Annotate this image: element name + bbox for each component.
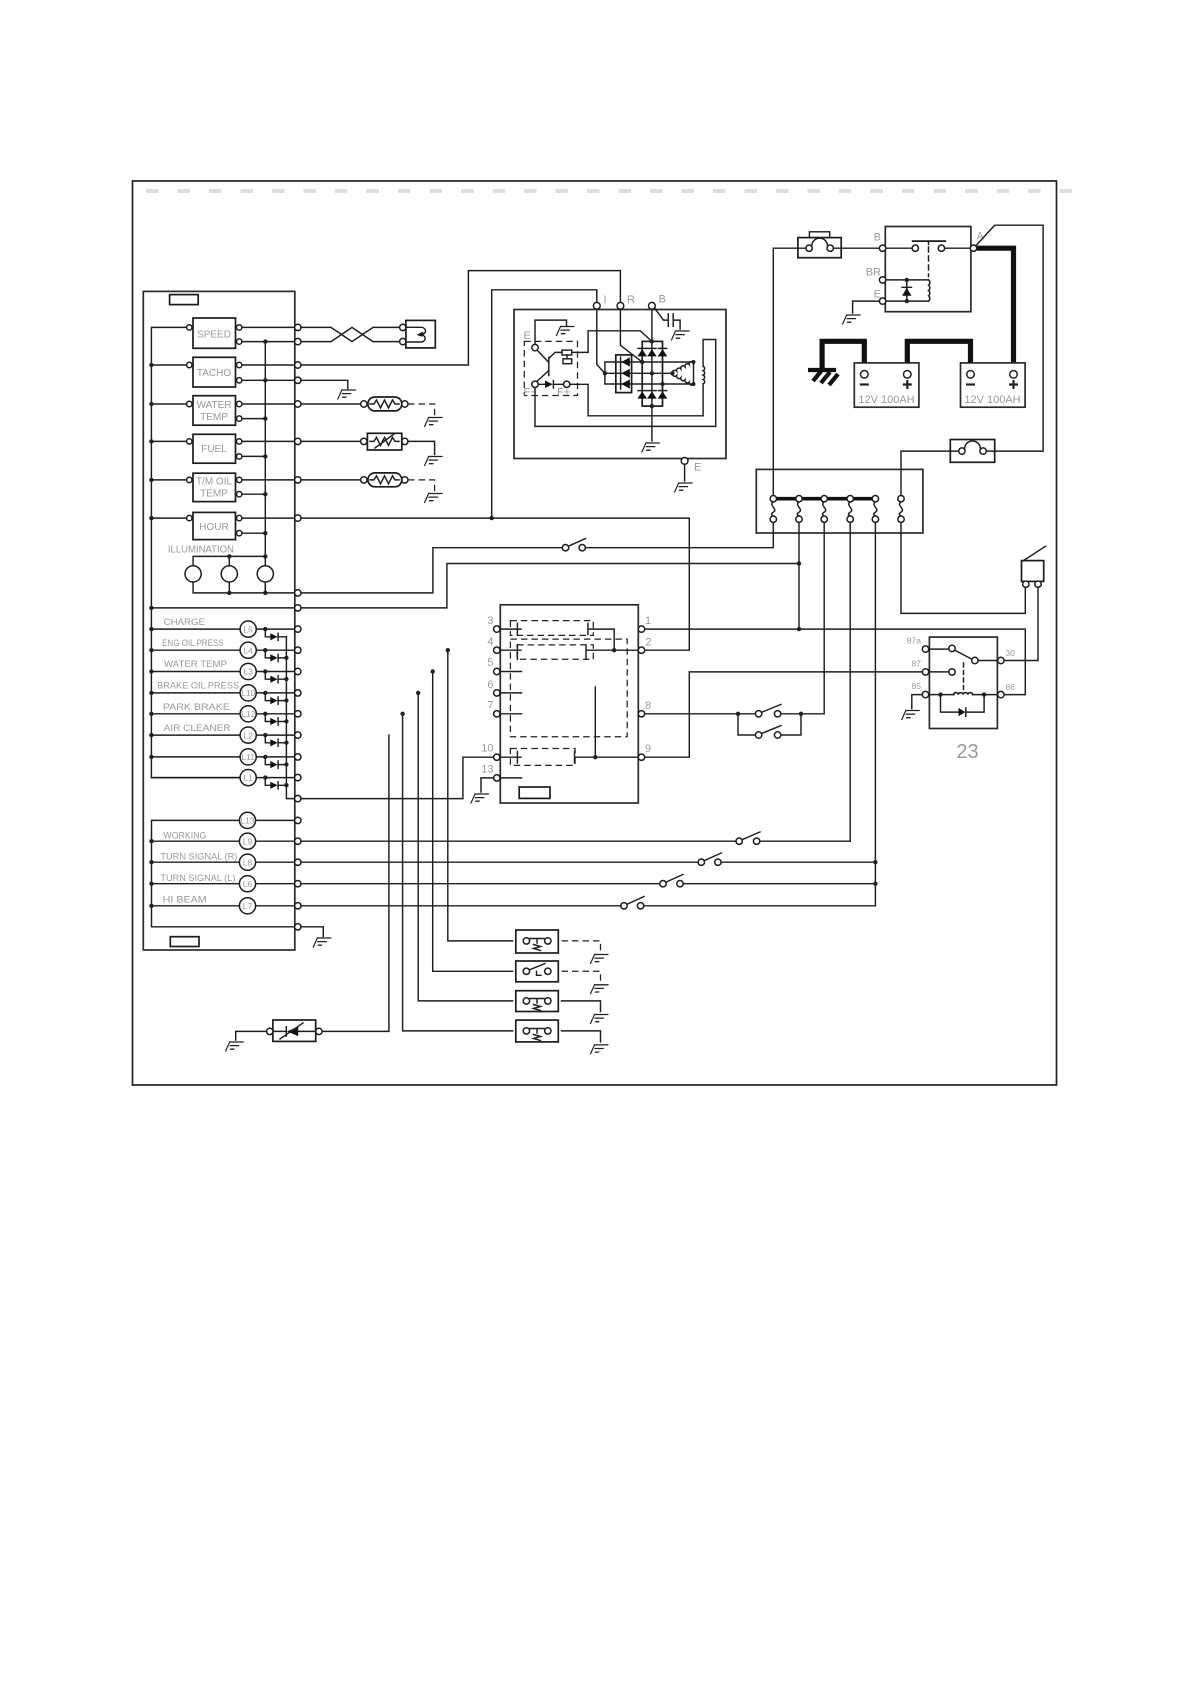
relay 23 coil	[929, 663, 998, 697]
lamp L2 AIR CLEANER	[151, 734, 297, 736]
relay terminal B	[879, 245, 885, 251]
phase nodes	[603, 371, 607, 375]
fuse box	[756, 469, 923, 533]
svg-text:87: 87	[912, 659, 922, 669]
illumination lamp 3	[257, 566, 273, 582]
lamp L10 BRAKE OIL	[151, 692, 297, 694]
controller internal dashed block R2	[517, 645, 593, 659]
regulator resistor	[549, 350, 572, 364]
regulator dashed box	[524, 341, 577, 395]
svg-text:L9: L9	[243, 836, 253, 846]
svg-text:TURN SIGNAL (L): TURN SIGNAL (L)	[160, 873, 235, 884]
working lamp row wire	[301, 840, 850, 842]
node I-feed junction	[490, 516, 494, 520]
diode D-L11	[265, 757, 286, 768]
pin8 wire	[645, 713, 824, 715]
fuel sender ground	[408, 441, 435, 454]
regulator E terminal	[532, 344, 538, 350]
svg-text:12V 100AH: 12V 100AH	[858, 394, 914, 406]
rectifier ground wire	[651, 406, 653, 441]
eng oil press switch	[516, 930, 559, 953]
instrument panel box	[143, 291, 294, 950]
panel bottom label plate	[170, 937, 199, 947]
lamp L7 HI BEAM	[256, 905, 297, 907]
relay 23 terminal 87	[922, 669, 928, 675]
lamp common return row	[295, 924, 301, 930]
twisted pair wire to speed sensor	[301, 327, 400, 341]
node B-rectifier	[650, 339, 654, 343]
lamp L11	[151, 756, 297, 758]
rectifier diodes top row	[637, 349, 647, 356]
wire junction to alternator I terminal	[492, 290, 597, 518]
svg-text:10: 10	[481, 743, 493, 755]
svg-text:WATER TEMP: WATER TEMP	[164, 659, 227, 670]
pin9 wire to relay 87	[645, 672, 923, 757]
svg-text:HOUR: HOUR	[199, 522, 228, 533]
border frame	[133, 181, 1057, 1085]
svg-text:30: 30	[1006, 648, 1016, 658]
svg-text:2: 2	[646, 637, 652, 649]
svg-text:L5: L5	[243, 624, 253, 634]
svg-text:L10: L10	[241, 688, 255, 698]
water temp sender wire	[301, 403, 361, 405]
svg-text:5: 5	[487, 657, 493, 669]
diode D-L10	[265, 693, 286, 704]
alternator outer box	[514, 310, 726, 459]
diode D-L5	[265, 629, 286, 640]
terminal B internal wire	[651, 309, 653, 341]
lamp L13	[256, 819, 297, 821]
svg-text:7: 7	[487, 700, 493, 712]
controller internal sense line	[594, 687, 596, 757]
T/M sender ground (dashed)	[408, 480, 435, 492]
svg-text:F+: F+	[557, 387, 570, 399]
fuse bus bar	[773, 497, 875, 501]
gauge TACHO	[193, 357, 236, 387]
pin1 wire to relay coil 86	[645, 629, 1026, 695]
fuse F1	[770, 496, 776, 523]
svg-text:6: 6	[487, 679, 493, 691]
T/M oil temp sender	[361, 473, 408, 487]
fold marks	[146, 189, 1072, 193]
wire F6 down to key switch	[901, 522, 1025, 613]
svg-text:FUEL: FUEL	[201, 444, 227, 455]
controller pin 4	[494, 647, 500, 653]
wire F5 down to turn/hibeam switches	[874, 522, 876, 905]
lamp L5 CHARGE	[151, 628, 297, 630]
terminal I internal wire	[597, 309, 605, 373]
wire FL1 to relay B	[833, 247, 879, 249]
relay terminal E	[879, 298, 885, 304]
regulator output diode	[538, 381, 563, 388]
thick battery1 ground cable	[822, 341, 864, 368]
controller pin 13	[494, 775, 500, 781]
lamp L6 TURN L	[256, 883, 297, 885]
svg-text:SPEED: SPEED	[197, 330, 231, 341]
controller label plate	[519, 787, 550, 798]
terminal R	[617, 302, 624, 309]
lamp L1	[151, 777, 297, 779]
relay 23 diode	[941, 695, 985, 717]
gauge feed bus	[264, 342, 266, 593]
relay terminal BR	[879, 277, 885, 283]
rectifier frame	[642, 341, 662, 406]
illumination lamp bus top	[193, 556, 265, 565]
turn signal L row wire	[301, 883, 875, 885]
park brake sender ground	[562, 1031, 601, 1042]
fuel sender	[361, 433, 408, 450]
svg-text:ENG OIL PRESS: ENG OIL PRESS	[162, 638, 224, 649]
lamp L8 TURN R	[256, 861, 297, 863]
controller pin 3	[494, 626, 500, 632]
svg-text:R: R	[627, 294, 635, 306]
controller internal dashed block main	[510, 639, 627, 737]
lamp L3 WATER TEMP	[151, 671, 297, 673]
pin13 ground wire	[481, 778, 494, 792]
rectifier diodes bottom row	[637, 391, 647, 398]
controller internal dashed block R3	[510, 749, 575, 766]
relay suppression diode	[902, 280, 911, 301]
battery relay box	[885, 227, 971, 312]
rotor field coil	[703, 340, 716, 427]
gauge SPEED	[193, 318, 236, 348]
air cleaner sensor ground	[236, 1031, 267, 1040]
thick battery ground	[808, 370, 838, 385]
park brake switch	[516, 1020, 559, 1042]
wire F4 down to working switch	[849, 522, 851, 841]
controller pin 10	[494, 754, 500, 760]
top common row	[151, 607, 297, 609]
svg-text:E: E	[694, 462, 701, 474]
keyswitch feed tap	[977, 225, 1044, 451]
R1 element and link to pin2 net	[588, 623, 614, 650]
svg-text:L12: L12	[241, 709, 255, 719]
diode D-L12	[265, 714, 286, 725]
relay 23 armature	[955, 650, 972, 659]
illumination feed wire	[301, 548, 562, 593]
lamp L9 WORKING	[256, 840, 297, 842]
fuse F6	[898, 496, 904, 523]
tacho ground wire	[301, 380, 348, 388]
park brake sender drop wire	[403, 714, 513, 1031]
wire switch to fuse F1	[585, 522, 773, 547]
panel main feed wire to fuse F2	[301, 564, 799, 608]
turn signal R switch	[698, 853, 721, 866]
relay 23 ground	[912, 695, 923, 709]
panel edge connector circles (gauges)	[295, 324, 301, 330]
water temp sender ground (dashed)	[562, 971, 601, 982]
svg-text:I: I	[604, 294, 607, 306]
lower lamp group bus	[152, 820, 298, 926]
air cleaner sensor	[267, 1020, 323, 1041]
controller pin 9	[638, 754, 644, 760]
regulator F- terminal	[532, 381, 538, 387]
stator winding cone	[670, 360, 695, 386]
diode trio box	[616, 355, 632, 393]
turn signal L switch	[660, 874, 683, 887]
svg-text:L11: L11	[241, 752, 255, 762]
eng oil press sender drop wire	[448, 650, 513, 941]
svg-text:E: E	[874, 289, 881, 301]
controller pin 6	[494, 690, 500, 696]
relay contacts	[886, 241, 971, 276]
tacho signal wire to alternator R	[301, 271, 620, 365]
panel top label plate	[170, 295, 199, 305]
svg-text:TEMP: TEMP	[200, 489, 228, 500]
svg-text:12V 100AH: 12V 100AH	[964, 394, 1020, 406]
battery 1	[854, 363, 919, 407]
svg-text:AIR CLEANER: AIR CLEANER	[164, 723, 231, 734]
controller pin 8	[638, 711, 644, 717]
fuse F2	[796, 496, 802, 523]
gauge FUEL	[193, 434, 236, 463]
terminal R internal wire	[620, 309, 642, 362]
svg-text:TEMP: TEMP	[200, 412, 228, 423]
eng oil sender ground (dashed)	[562, 941, 601, 952]
speed sensor	[406, 320, 435, 348]
regulator E ground wire	[535, 320, 567, 344]
capacitor ground	[671, 330, 690, 340]
svg-text:E: E	[524, 330, 531, 342]
svg-text:TURN SIGNAL (R): TURN SIGNAL (R)	[160, 852, 237, 863]
hi beam row wire	[301, 905, 875, 907]
svg-text:87a: 87a	[907, 636, 921, 646]
svg-text:86: 86	[1006, 682, 1016, 692]
alternator E terminal	[681, 458, 688, 465]
panel ground	[313, 937, 332, 947]
svg-text:PARK BRAKE: PARK BRAKE	[163, 702, 230, 713]
svg-text:TACHO: TACHO	[197, 368, 231, 379]
wire F2 down	[798, 522, 800, 629]
hour meter feed wire to pin2	[301, 518, 689, 650]
F- wire to field return	[535, 388, 716, 427]
working switch	[736, 832, 760, 845]
svg-text:13: 13	[481, 764, 493, 776]
diode D-L4	[265, 650, 286, 661]
F+ wire to field coil	[570, 384, 703, 416]
fusible link FL2	[950, 440, 994, 463]
terminal I	[593, 302, 600, 309]
diode D-L2	[265, 735, 286, 746]
relay coil	[886, 278, 930, 304]
controller pin 1	[638, 626, 644, 632]
svg-text:8: 8	[645, 700, 651, 712]
diode trio elements	[621, 357, 630, 366]
svg-text:BR: BR	[866, 267, 881, 279]
relay 23 terminal 87a	[922, 646, 928, 652]
water temp switch	[516, 961, 559, 982]
relay 23 terminal 86	[998, 691, 1004, 697]
svg-text:85: 85	[912, 681, 922, 691]
fuse F5	[872, 496, 878, 523]
illumination switch	[562, 539, 585, 551]
brake oil press sender drop wire	[418, 693, 512, 1001]
svg-text:1: 1	[645, 615, 651, 627]
water temp sender ground (dashed)	[408, 404, 435, 416]
relay 23 contact 87a	[929, 648, 949, 650]
svg-text:B: B	[659, 294, 666, 306]
illumination lamp bus bottom	[193, 582, 297, 593]
svg-text:L6: L6	[243, 879, 253, 889]
battery 2	[961, 363, 1026, 407]
water temp sender drop wire	[433, 672, 513, 972]
relay E ground wire	[853, 301, 880, 313]
air cleaner drop wire	[322, 735, 389, 1031]
wire key switch to relay 30	[1004, 587, 1038, 660]
hi beam switch	[621, 897, 644, 910]
panel left supply bus	[151, 327, 240, 777]
fusible link FL1	[798, 232, 841, 258]
svg-text:9: 9	[645, 743, 651, 755]
svg-text:CHARGE: CHARGE	[164, 617, 205, 628]
brake oil sender ground	[562, 1001, 601, 1012]
fuse F4	[847, 496, 853, 523]
T/M oil temp sender wire	[301, 479, 361, 481]
gauge T/M OIL TEMP	[193, 473, 236, 501]
regulator transistor	[537, 351, 549, 382]
thick cable A to battery2	[977, 248, 1014, 363]
fuel sender wire	[301, 440, 361, 442]
svg-text:L8: L8	[243, 857, 253, 867]
svg-text:L13: L13	[240, 816, 254, 826]
svg-text:ILLUMINATION: ILLUMINATION	[168, 545, 234, 556]
svg-text:B: B	[874, 232, 881, 244]
wire F3 down to work lamp switch node	[823, 522, 825, 713]
svg-text:L1: L1	[243, 773, 253, 783]
key switch	[1022, 546, 1046, 587]
water temp sender	[361, 397, 408, 411]
relay terminal A	[970, 245, 976, 251]
fuse F3	[821, 496, 827, 523]
diode D-L3	[265, 672, 286, 683]
controller pin 5	[494, 668, 500, 674]
ground (tacho)	[337, 389, 356, 399]
svg-text:BRAKE OIL PRESS: BRAKE OIL PRESS	[157, 681, 239, 692]
phase wires	[605, 362, 694, 384]
svg-text:4: 4	[487, 636, 493, 648]
lamp L4 ENG OIL	[151, 649, 297, 651]
brake oil press switch	[516, 991, 559, 1012]
controller internal dashed block R1	[510, 621, 593, 636]
svg-text:HI BEAM: HI BEAM	[163, 895, 207, 906]
lamp L12 PARK BRAKE	[151, 713, 297, 715]
lamp-check wire to controller pin10	[301, 757, 494, 798]
alternator E ground	[684, 464, 686, 481]
turn signal R row wire	[301, 861, 875, 863]
illumination lamp 2	[221, 566, 237, 582]
wire FL2 to fuse F6	[901, 451, 959, 495]
svg-text:L7: L7	[243, 901, 253, 911]
thick battery interconnect cable	[907, 341, 970, 363]
svg-text:T/M OIL: T/M OIL	[196, 477, 233, 488]
noise capacitor	[655, 308, 681, 329]
illumination lamp 1	[185, 566, 201, 582]
controller pin 7	[494, 711, 500, 717]
svg-text:23: 23	[956, 741, 978, 763]
relay 23 box	[929, 637, 997, 728]
relay 23 terminal 30	[998, 657, 1004, 663]
diode D-L1	[265, 778, 286, 789]
node rectifier bottom	[650, 404, 654, 408]
wire FL1 to fuse F1	[773, 248, 806, 495]
lamp diode bus	[286, 637, 297, 799]
regulator sense wire to B node	[572, 331, 652, 353]
terminal B	[649, 302, 656, 309]
svg-text:L3: L3	[243, 667, 253, 677]
gauge WATER TEMP	[193, 396, 236, 426]
svg-text:WATER: WATER	[197, 400, 232, 411]
controller box	[500, 605, 638, 803]
bus junction dots	[149, 363, 153, 367]
work lamp switch	[755, 704, 781, 717]
relay 23 terminal 85	[922, 691, 928, 697]
panel ground wire	[301, 927, 323, 937]
svg-text:L4: L4	[243, 645, 253, 655]
svg-text:L2: L2	[243, 730, 253, 740]
controller pin 2	[638, 647, 644, 653]
regulator F+ terminal	[564, 381, 570, 387]
work lamp switch 2 (parallel)	[738, 714, 801, 738]
svg-text:WORKING: WORKING	[163, 831, 206, 842]
svg-text:3: 3	[487, 615, 493, 627]
gauge HOUR	[193, 512, 236, 539]
